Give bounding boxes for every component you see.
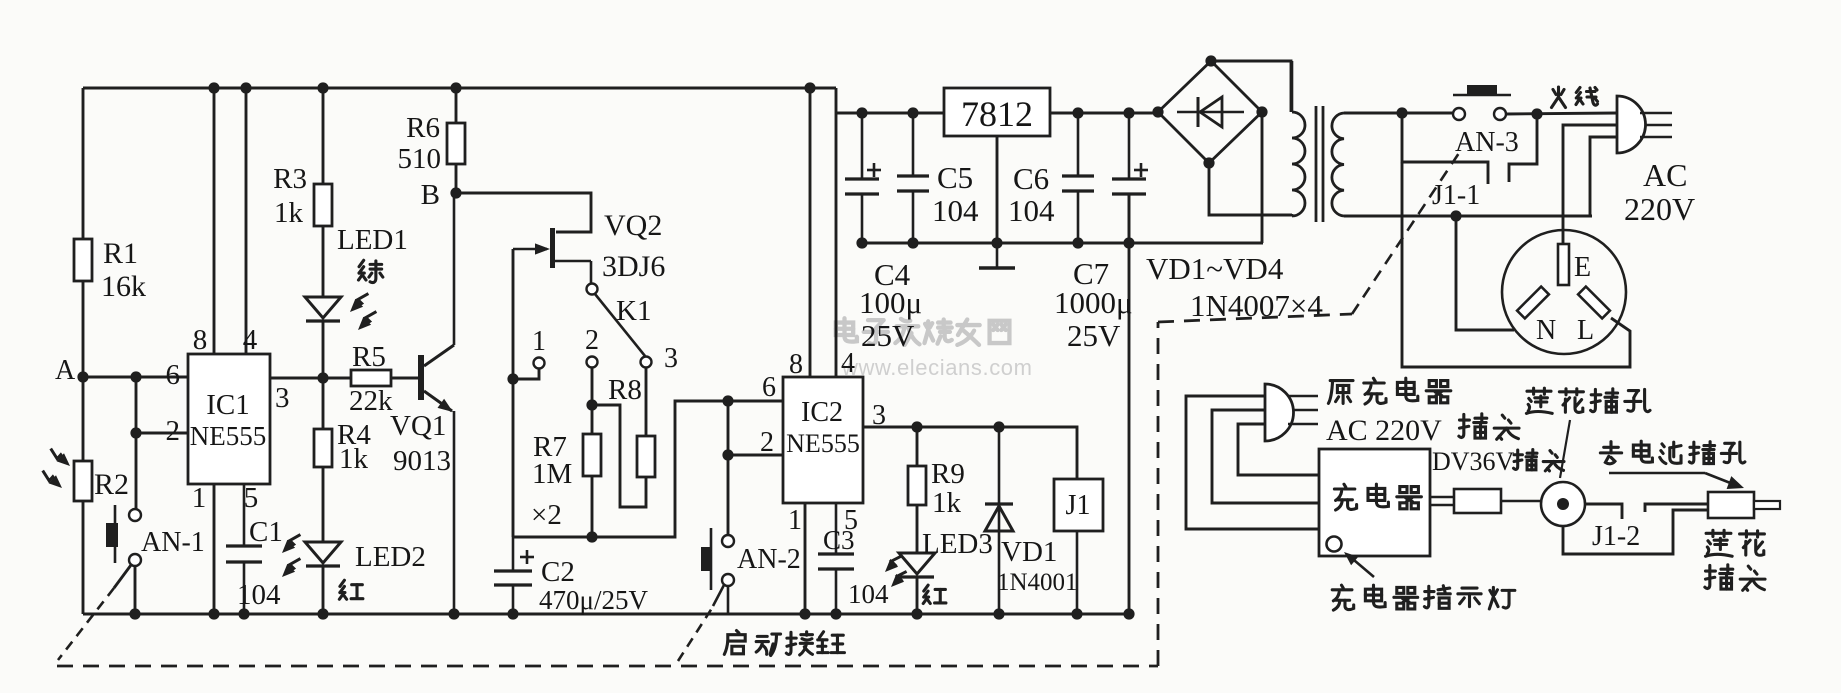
svg-text:1: 1 bbox=[788, 505, 802, 536]
wire charger plug to charger box 3 bbox=[1238, 424, 1319, 475]
capacitor C5 104 bbox=[912, 113, 915, 176]
svg-text:1k: 1k bbox=[339, 443, 369, 475]
svg-text:R1: R1 bbox=[103, 237, 138, 270]
wire tie down to AN-2 bbox=[727, 455, 730, 535]
junction pins 2-6 tie bbox=[130, 371, 141, 382]
dashed to J1-1 bbox=[1158, 314, 1352, 322]
wire live wire down to socket L bbox=[1402, 162, 1630, 367]
svg-text:R2: R2 bbox=[94, 468, 129, 501]
light arrows into R2 bbox=[51, 449, 67, 464]
wire IC1 pin 4 to rail bbox=[245, 88, 248, 354]
svg-text:4: 4 bbox=[243, 324, 258, 356]
RCA jack J1-2 bbox=[1541, 482, 1585, 526]
switch K1 rotary bbox=[587, 284, 598, 295]
label lotus jack bbox=[1526, 388, 1552, 413]
wire 7812 ground pin bbox=[996, 136, 999, 243]
wire jack shell to RCA plug bbox=[1563, 510, 1708, 554]
wire top supply rail bbox=[83, 87, 836, 90]
resistor R1 16k bbox=[82, 88, 85, 239]
resistor R7 1M bbox=[591, 405, 594, 434]
svg-text:A: A bbox=[55, 355, 76, 386]
socket N pin bbox=[1517, 287, 1549, 319]
svg-text:K1: K1 bbox=[616, 295, 651, 327]
wire node B to VQ2 drain bbox=[456, 193, 591, 232]
dashed bottom boundary bbox=[57, 665, 1158, 668]
bridge diode symbol bbox=[1177, 111, 1244, 114]
svg-text:R3: R3 bbox=[273, 163, 307, 195]
wire pin2/6 tie down to AN-1 bbox=[135, 377, 138, 509]
wire K1 contact 1 to gate node bbox=[513, 369, 539, 379]
svg-text:510: 510 bbox=[398, 143, 442, 175]
relay contact J1-2 right stub bbox=[1645, 504, 1708, 512]
svg-text:1k: 1k bbox=[274, 197, 304, 229]
wire AN-3 right to live node bbox=[1506, 113, 1617, 114]
wire 7812 output rail bbox=[1050, 112, 1158, 115]
svg-text:J1-1: J1-1 bbox=[1432, 180, 1480, 211]
svg-text:7812: 7812 bbox=[961, 94, 1033, 134]
wire IC2 pin 4 to rail and 7812 branch bbox=[835, 88, 838, 377]
svg-text:LED3: LED3 bbox=[922, 528, 993, 560]
AC 220V wall plug bbox=[1617, 96, 1646, 153]
svg-text:R6: R6 bbox=[406, 112, 440, 144]
svg-text:2: 2 bbox=[760, 427, 774, 458]
svg-text:NE555: NE555 bbox=[786, 429, 860, 458]
svg-text:B: B bbox=[421, 179, 440, 211]
label start buttons bbox=[724, 631, 745, 655]
svg-text:C6: C6 bbox=[1013, 161, 1049, 196]
wire 7812 input rail bbox=[836, 112, 944, 115]
svg-text:VQ2: VQ2 bbox=[604, 209, 662, 242]
wire charger plug to charger box 2 bbox=[1212, 410, 1319, 503]
svg-text:104: 104 bbox=[1008, 193, 1055, 228]
svg-text:LED2: LED2 bbox=[355, 541, 426, 573]
JFET Q2: VQ2 3DJ6 bbox=[550, 228, 555, 268]
svg-text:R8: R8 bbox=[608, 374, 642, 406]
svg-text:3: 3 bbox=[664, 343, 678, 374]
wire ground rail up to power-supply ground bbox=[1128, 194, 1131, 614]
dashed linkage AN-1 bbox=[58, 588, 114, 660]
relay contact J1-2 left stub bbox=[1585, 504, 1622, 519]
socket E pin bbox=[1558, 244, 1569, 285]
capacitor C3 104 bbox=[835, 503, 838, 554]
capacitor C1 104 bbox=[243, 484, 246, 546]
wire IC1 pin 1 to ground bbox=[213, 484, 216, 614]
IC U2: IC2 NE555 timer bbox=[783, 377, 863, 503]
svg-text:104: 104 bbox=[848, 579, 889, 609]
svg-text:N: N bbox=[1536, 315, 1556, 346]
svg-text:www.elecians.com: www.elecians.com bbox=[841, 355, 1033, 380]
svg-text:VQ1: VQ1 bbox=[390, 410, 446, 442]
pushbutton AN-2 bbox=[722, 535, 734, 547]
svg-text:2: 2 bbox=[166, 415, 181, 447]
transformer T1 secondary winding bbox=[1292, 112, 1305, 216]
svg-text:4: 4 bbox=[841, 348, 855, 379]
wire primary bottom row bbox=[1344, 215, 1592, 218]
power socket circle bbox=[1502, 230, 1626, 354]
capacitor C4 100u/25V bbox=[861, 113, 864, 179]
svg-text:6: 6 bbox=[166, 359, 181, 391]
relay contact J1-1 right stub bbox=[1509, 114, 1537, 182]
svg-text:C1: C1 bbox=[249, 516, 283, 548]
photoresistor R2 bbox=[82, 377, 85, 461]
wire C2 node to IC2 pins 6 and 2 bbox=[513, 401, 783, 537]
wire neutral down to socket N bbox=[1456, 216, 1514, 330]
svg-text:AC: AC bbox=[1643, 157, 1687, 193]
svg-text:C3: C3 bbox=[823, 525, 855, 555]
label live wire bbox=[1552, 87, 1566, 108]
wire IC1 pin 8 to rail bbox=[213, 88, 216, 354]
transformer T1 primary winding bbox=[1332, 113, 1344, 216]
resistor R8 1M bbox=[637, 436, 655, 477]
resistor R4 1k bbox=[322, 378, 325, 429]
svg-text:LED1: LED1 bbox=[337, 224, 408, 256]
wire K1 contact 2 down bbox=[591, 368, 594, 405]
svg-text:2: 2 bbox=[585, 325, 599, 356]
wire bridge minus down to ground rail bbox=[1261, 112, 1264, 243]
svg-text:220V: 220V bbox=[1624, 191, 1695, 227]
svg-text:AN-1: AN-1 bbox=[141, 527, 205, 558]
svg-text:1N4001: 1N4001 bbox=[997, 569, 1078, 596]
wire IC2 pin 3 output row bbox=[863, 427, 1077, 479]
socket L pin bbox=[1578, 287, 1610, 319]
LED LED2 red bbox=[305, 542, 341, 563]
svg-text:AN-2: AN-2 bbox=[737, 544, 801, 575]
node B bbox=[450, 187, 461, 198]
svg-text:R9: R9 bbox=[931, 458, 965, 490]
svg-text:1000μ: 1000μ bbox=[1054, 285, 1133, 320]
svg-text:×2: ×2 bbox=[531, 499, 562, 531]
IC U1: IC1 NE555 timer bbox=[188, 354, 270, 484]
svg-text:NE555: NE555 bbox=[190, 421, 267, 451]
svg-text:1: 1 bbox=[192, 482, 207, 514]
LED LED1 green bbox=[305, 297, 341, 318]
wire IC2 pin 8 to rail bbox=[809, 88, 812, 377]
svg-text:VD1~VD4: VD1~VD4 bbox=[1146, 251, 1284, 286]
svg-text:100μ: 100μ bbox=[859, 285, 922, 320]
charger indicator lamp bbox=[1327, 537, 1342, 552]
arrow to battery jack bbox=[1609, 472, 1705, 475]
relay contact J1-1 left stub bbox=[1402, 113, 1488, 184]
resistor R9 1k bbox=[916, 427, 919, 466]
svg-text:L: L bbox=[1577, 315, 1594, 346]
svg-text:8: 8 bbox=[193, 324, 208, 356]
svg-text:3: 3 bbox=[275, 382, 290, 414]
wire LED1 to pin3 node bbox=[317, 372, 328, 383]
bridge rectifier VD1-VD4 bbox=[1158, 61, 1262, 163]
svg-text:1k: 1k bbox=[932, 487, 962, 519]
svg-text:470μ/25V: 470μ/25V bbox=[539, 585, 648, 615]
svg-text:5: 5 bbox=[244, 482, 259, 514]
svg-text:C2: C2 bbox=[541, 556, 575, 588]
wire IC2 pin 1 to ground bbox=[804, 503, 807, 614]
svg-text:IC2: IC2 bbox=[801, 397, 843, 428]
wire charger plug to charger box 1 bbox=[1186, 396, 1319, 529]
wire earth prong to socket E bbox=[1563, 125, 1617, 244]
wire R8 bottom loop to contact2 node bbox=[592, 405, 646, 507]
transformer core bbox=[1315, 106, 1318, 222]
wire neutral prong bbox=[1590, 137, 1617, 216]
ground symbol bbox=[996, 243, 999, 267]
svg-text:8: 8 bbox=[789, 349, 803, 380]
svg-text:AC 220V: AC 220V bbox=[1326, 414, 1442, 447]
svg-text:AN-3: AN-3 bbox=[1455, 127, 1519, 158]
resistor R5 22k bbox=[351, 370, 391, 386]
node A bbox=[77, 371, 88, 382]
svg-text:C5: C5 bbox=[937, 160, 973, 195]
wire VQ2 gate down to C2 node bbox=[512, 249, 515, 537]
capacitor C7 1000u/25V bbox=[1128, 113, 1131, 179]
power ground rail bbox=[862, 242, 1263, 245]
charger AC plug bbox=[1265, 384, 1294, 441]
svg-text:DV36V: DV36V bbox=[1432, 447, 1515, 476]
svg-text:16k: 16k bbox=[101, 270, 146, 303]
wire node A to IC1 pin 6 bbox=[83, 376, 188, 379]
svg-text:25V: 25V bbox=[861, 318, 915, 353]
svg-text:R5: R5 bbox=[352, 341, 386, 373]
svg-text:6: 6 bbox=[762, 372, 776, 403]
label lotus plug bbox=[1705, 530, 1732, 556]
svg-text:VD1: VD1 bbox=[1001, 536, 1057, 568]
diode VD1 1N4001 flyback bbox=[998, 427, 1001, 531]
wire bridge top to transformer secondary bbox=[1211, 61, 1291, 112]
relay coil J1 bbox=[1054, 479, 1103, 531]
svg-text:3DJ6: 3DJ6 bbox=[602, 250, 665, 283]
wire pin6 to pin2 tie bbox=[727, 401, 730, 455]
svg-text:E: E bbox=[1574, 252, 1591, 283]
dashed right boundary up bbox=[1157, 322, 1160, 666]
resistor R6 510 bbox=[450, 82, 461, 93]
svg-text:1N4007×4: 1N4007×4 bbox=[1190, 288, 1323, 323]
pushbutton AN-1 bbox=[129, 509, 141, 521]
svg-text:1: 1 bbox=[532, 326, 546, 357]
svg-text:104: 104 bbox=[932, 193, 979, 228]
svg-text:IC1: IC1 bbox=[206, 389, 250, 421]
svg-text:J1: J1 bbox=[1066, 490, 1091, 521]
gate arrow of VQ2 bbox=[513, 248, 547, 251]
resistor R3 1k bbox=[317, 82, 328, 93]
RCA plug bbox=[1708, 492, 1754, 518]
LED LED3 red bbox=[899, 553, 935, 574]
capacitor C6 104 bbox=[1077, 113, 1080, 176]
svg-text:9013: 9013 bbox=[393, 445, 451, 477]
pushbutton AN-3 bbox=[1453, 108, 1465, 120]
wire to IC1 pin 2 bbox=[136, 432, 188, 435]
label original charger bbox=[1328, 381, 1353, 404]
wire bottom ground rail bbox=[83, 613, 1130, 616]
capacitor C2 470u/25V bbox=[512, 537, 515, 571]
wire IC1 pin 3 to R5 bbox=[270, 377, 351, 380]
svg-text:25V: 25V bbox=[1067, 318, 1121, 353]
transistor Q1: VQ1 9013 NPN bbox=[418, 355, 424, 400]
wire bridge bottom to secondary bottom bbox=[1209, 163, 1292, 215]
label to battery jack bbox=[1600, 442, 1621, 464]
wire primary top to AN-3 bbox=[1344, 112, 1453, 115]
svg-text:22k: 22k bbox=[349, 385, 393, 417]
wire K1 contact 3 to R8 bbox=[645, 368, 648, 436]
watermark bbox=[836, 318, 857, 341]
svg-text:J1-2: J1-2 bbox=[1592, 521, 1640, 552]
dashed linkage AN-2 bbox=[678, 605, 714, 661]
DC output plug DV36V bbox=[1430, 496, 1454, 499]
regulator U3 7812 bbox=[944, 88, 1050, 136]
svg-text:104: 104 bbox=[237, 579, 281, 611]
svg-text:1M: 1M bbox=[532, 458, 572, 490]
charger box bbox=[1319, 449, 1430, 556]
